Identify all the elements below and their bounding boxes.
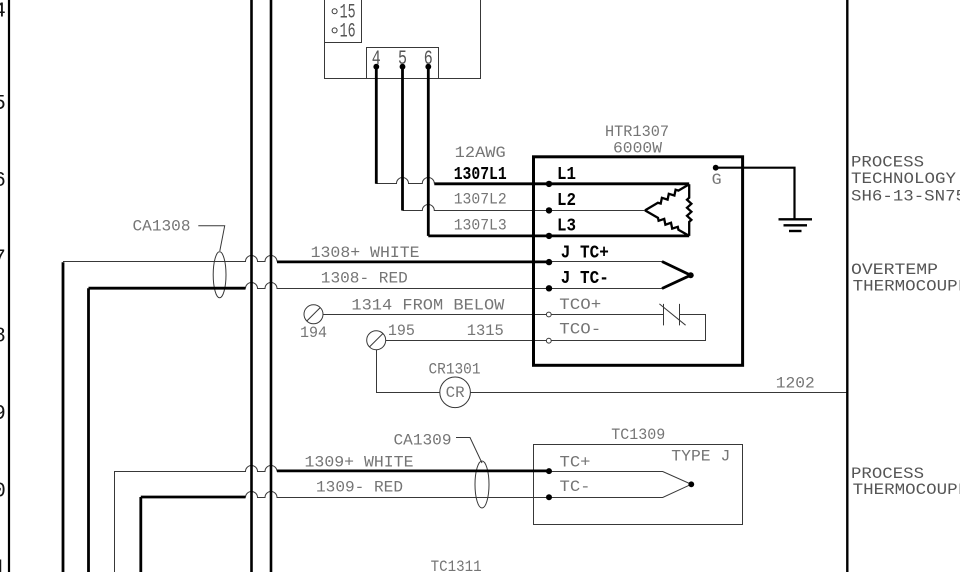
svg-text:1308+ WHITE: 1308+ WHITE	[311, 244, 420, 262]
svg-text:J TC+: J TC+	[561, 243, 609, 263]
svg-text:L1: L1	[557, 165, 576, 185]
svg-text:SH6-13-SN75: SH6-13-SN75	[851, 188, 960, 206]
svg-text:CR: CR	[446, 384, 465, 402]
svg-text:TC1311: TC1311	[431, 558, 482, 572]
svg-text:PROCESS: PROCESS	[851, 153, 924, 171]
svg-text:CR1301: CR1301	[429, 360, 481, 378]
svg-text:TC1309: TC1309	[611, 426, 665, 444]
svg-text:J TC-: J TC-	[561, 269, 609, 289]
svg-text:1315: 1315	[467, 322, 504, 340]
svg-text:195: 195	[388, 322, 415, 340]
svg-text:TCO-: TCO-	[559, 321, 601, 339]
svg-text:4: 4	[372, 48, 381, 71]
svg-text:4: 4	[0, 1, 6, 24]
svg-text:1307L3: 1307L3	[454, 216, 507, 234]
svg-text:TYPE J: TYPE J	[671, 447, 730, 465]
svg-text:1307L2: 1307L2	[454, 191, 507, 209]
svg-text:L2: L2	[557, 191, 576, 211]
svg-text:194: 194	[300, 324, 327, 342]
svg-text:HTR1307: HTR1307	[605, 123, 669, 141]
svg-text:8: 8	[0, 326, 6, 349]
svg-text:1314 FROM BELOW: 1314 FROM BELOW	[351, 297, 504, 315]
svg-text:1307L1: 1307L1	[454, 165, 507, 185]
svg-text:1308- RED: 1308- RED	[321, 270, 408, 288]
svg-text:CA1308: CA1308	[133, 218, 191, 236]
svg-text:G: G	[712, 171, 722, 189]
svg-text:TC-: TC-	[560, 478, 591, 496]
svg-text:CA1309: CA1309	[394, 431, 452, 449]
svg-text:L3: L3	[557, 217, 576, 237]
svg-text:0: 0	[0, 481, 6, 504]
svg-text:OVERTEMP: OVERTEMP	[851, 261, 938, 279]
svg-text:TECHNOLOGY: TECHNOLOGY	[851, 170, 956, 188]
svg-text:THERMOCOUPLE: THERMOCOUPLE	[853, 277, 960, 295]
svg-text:16: 16	[340, 21, 356, 44]
svg-text:TC+: TC+	[560, 453, 591, 471]
svg-text:9: 9	[0, 403, 6, 426]
svg-text:5: 5	[398, 48, 407, 71]
svg-text:6: 6	[424, 48, 433, 71]
svg-text:1309- RED: 1309- RED	[316, 478, 403, 496]
svg-text:THERMOCOUPLE: THERMOCOUPLE	[853, 481, 960, 499]
svg-text:1202: 1202	[776, 375, 815, 393]
svg-text:1: 1	[0, 558, 6, 572]
svg-text:12AWG: 12AWG	[455, 144, 506, 162]
svg-text:1309+ WHITE: 1309+ WHITE	[305, 453, 414, 471]
svg-text:5: 5	[0, 93, 6, 116]
svg-text:6: 6	[0, 170, 6, 193]
svg-text:6000W: 6000W	[613, 139, 662, 157]
svg-text:7: 7	[0, 248, 6, 271]
svg-text:TCO+: TCO+	[559, 296, 601, 314]
